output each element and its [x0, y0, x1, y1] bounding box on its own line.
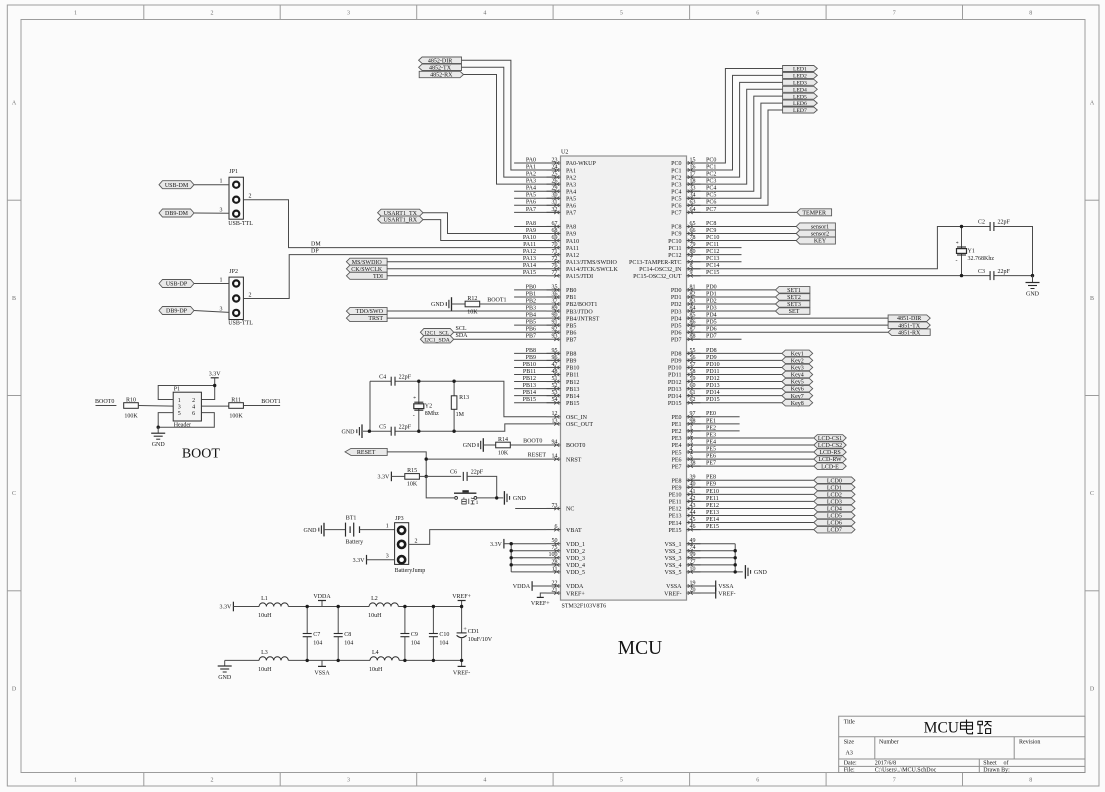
- wire BOOT0 to R10: [96, 405, 117, 407]
- wire C3 row: [962, 275, 991, 277]
- svg-text:KEY: KEY: [814, 239, 827, 245]
- wire PC8 to sensor1: [687, 225, 797, 227]
- sheet title MCU dianlu: [924, 720, 992, 737]
- svg-text:PB7: PB7: [566, 337, 576, 343]
- svg-text:PE1: PE1: [671, 422, 681, 428]
- svg-text:LCD4: LCD4: [827, 507, 842, 513]
- ground R12 GND: [431, 297, 452, 311]
- wire NC stub: [515, 507, 560, 509]
- svg-text:Key8: Key8: [791, 401, 804, 407]
- wire L4 to VREF-: [399, 659, 461, 661]
- svg-text:PD13: PD13: [668, 387, 682, 393]
- port LCD-CS2: [814, 442, 846, 449]
- wire USB-DP to JP2.1: [194, 283, 229, 285]
- svg-text:C4: C4: [379, 374, 386, 380]
- wire left stub row 0: [514, 162, 560, 164]
- capacitor C5 22pF: [379, 424, 412, 435]
- junction C7 bot: [306, 659, 309, 662]
- wire PC113 stub: [687, 261, 742, 263]
- pin PB14 (53) of U2: [547, 390, 580, 400]
- pin VDD_5 (11) of U2: [547, 566, 586, 576]
- wire PC0 to LED1: [687, 69, 783, 164]
- svg-text:DM: DM: [311, 241, 321, 247]
- svg-text:3: 3: [386, 554, 389, 560]
- pin PD3 (84) of U2: [671, 305, 701, 315]
- svg-text:VBAT: VBAT: [566, 528, 582, 534]
- svg-text:File:: File:: [844, 767, 855, 773]
- pin PA5 (30) of U2: [547, 193, 577, 203]
- wire reset drop: [425, 459, 427, 476]
- crystal Y1 32.768Khz: [956, 241, 995, 264]
- svg-text:VSS_2: VSS_2: [664, 549, 681, 555]
- svg-text:PB3/JTDO: PB3/JTDO: [566, 309, 593, 315]
- port LED4: [783, 86, 818, 93]
- svg-text:*: *: [956, 241, 959, 247]
- wire PC10 to KEY: [687, 240, 797, 242]
- svg-text:32.768Khz: 32.768Khz: [968, 256, 995, 262]
- svg-text:PD8: PD8: [671, 352, 682, 358]
- svg-text:PC6: PC6: [671, 204, 681, 210]
- wire PE12 to LCD4: [687, 507, 814, 509]
- svg-text:10uF/10V: 10uF/10V: [468, 637, 493, 643]
- pin PD10 (57) of U2: [668, 362, 701, 372]
- svg-text:PB13: PB13: [566, 387, 579, 393]
- wire TDO/SWO to PB3: [387, 310, 546, 312]
- wire PC1 to LED2: [687, 75, 783, 170]
- wire TRST to PB4: [387, 317, 546, 319]
- wire left stub row 5: [514, 197, 560, 199]
- pin PC2 (17) of U2: [671, 172, 700, 182]
- svg-text:2017/6/8: 2017/6/8: [875, 761, 896, 767]
- svg-text:8: 8: [1029, 778, 1032, 784]
- capacitor C4 22pF: [379, 374, 412, 385]
- pin VSS_3 (99) of U2: [664, 552, 700, 562]
- svg-text:PC15-OSC32_OUT: PC15-OSC32_OUT: [633, 274, 682, 280]
- wire 3.3V to JP3.3: [367, 559, 395, 561]
- wire PE1 stub: [687, 423, 740, 425]
- svg-text:L4: L4: [372, 650, 379, 656]
- wire PE5 to LCD-RS: [687, 451, 814, 453]
- svg-text:SCL: SCL: [456, 326, 467, 332]
- svg-text:100K: 100K: [124, 414, 138, 420]
- svg-text:OSC_IN: OSC_IN: [566, 415, 588, 421]
- svg-text:22pF: 22pF: [471, 470, 484, 476]
- svg-text:PA11: PA11: [566, 246, 579, 252]
- ground osc2 GND: [342, 424, 363, 438]
- svg-text:77: 77: [552, 270, 558, 276]
- svg-text:Battery: Battery: [346, 540, 364, 546]
- svg-text:PB4/JNTRST: PB4/JNTRST: [566, 316, 600, 322]
- junction osc node bottom: [960, 274, 963, 277]
- junction C8 bot: [337, 659, 340, 662]
- junction VDD junction 3: [510, 556, 513, 559]
- svg-text:R11: R11: [231, 397, 241, 403]
- svg-text:VSS_3: VSS_3: [664, 556, 681, 562]
- ground reset GND: [504, 491, 526, 505]
- svg-text:8: 8: [1029, 11, 1032, 17]
- svg-text:2: 2: [192, 398, 195, 404]
- pin NC (73) of U2: [547, 503, 575, 513]
- svg-text:LCD-RS: LCD-RS: [819, 450, 840, 456]
- svg-text:4851-RX: 4851-RX: [898, 330, 921, 336]
- pin PC9 (66) of U2: [671, 228, 700, 238]
- svg-text:VSS_1: VSS_1: [664, 542, 681, 548]
- pin PE0 (97) of U2: [671, 411, 700, 421]
- pin PA4 (29) of U2: [547, 186, 577, 196]
- svg-text:75: 75: [552, 545, 558, 551]
- wire 3.3V drop to P1.2: [201, 378, 214, 400]
- inductor L4 10uH: [369, 650, 399, 673]
- svg-text:69: 69: [552, 235, 558, 241]
- wire 4852-TX to PA2: [462, 67, 561, 177]
- svg-text:3: 3: [347, 11, 350, 17]
- power VREF+ at pin: [531, 597, 550, 606]
- junction P1 3.3V node: [213, 384, 216, 387]
- pin PD4 (85) of U2: [671, 313, 701, 323]
- svg-text:STM32F103V8T6: STM32F103V8T6: [562, 604, 607, 610]
- svg-text:BOOT: BOOT: [182, 447, 221, 462]
- pin VSS_1 (49) of U2: [664, 538, 700, 548]
- wire RESET to NRST: [387, 452, 546, 459]
- wire gnd drop L3: [224, 660, 226, 666]
- wire left stub row 23: [514, 324, 560, 326]
- svg-text:PE11: PE11: [669, 500, 682, 506]
- pin PB11 (48) of U2: [547, 369, 580, 379]
- pin NRST (14) of U2: [547, 454, 582, 464]
- svg-text:94: 94: [552, 439, 558, 445]
- svg-text:LCD-CS2: LCD-CS2: [818, 443, 842, 449]
- port CK/SWCLK: [346, 265, 387, 273]
- svg-text:PE10: PE10: [668, 493, 681, 499]
- svg-text:PA2: PA2: [566, 175, 576, 181]
- capacitor C9 104: [400, 632, 420, 647]
- svg-text:6: 6: [756, 11, 759, 17]
- svg-text:PA12: PA12: [566, 253, 579, 259]
- svg-text:PE2: PE2: [671, 429, 681, 435]
- svg-text:TDI: TDI: [373, 274, 383, 280]
- svg-text:PD7: PD7: [671, 337, 682, 343]
- wire node down to button: [426, 476, 454, 498]
- port TDI: [346, 272, 387, 280]
- wire L2 to VREF+: [398, 606, 461, 608]
- port 4851-TX: [888, 322, 930, 329]
- wire VSS row 1: [687, 543, 736, 545]
- svg-text:PD12: PD12: [668, 380, 682, 386]
- pin OSC_OUT (13) of U2: [547, 418, 594, 428]
- svg-text:72: 72: [552, 256, 558, 262]
- wire PD8 to Key1: [687, 352, 782, 354]
- svg-text:3.3V: 3.3V: [378, 475, 391, 481]
- svg-text:3.3V: 3.3V: [490, 542, 503, 548]
- wire SDA wire: [454, 338, 547, 340]
- svg-text:4: 4: [483, 11, 486, 17]
- port 4851-DIR: [888, 315, 930, 322]
- wire 3.3V to R15: [391, 475, 404, 477]
- port 4852-TX: [419, 64, 462, 71]
- svg-text:A: A: [12, 101, 17, 107]
- pin PB2/BOOT1 (37) of U2: [547, 298, 598, 308]
- svg-text:DB9-DP: DB9-DP: [166, 309, 188, 315]
- svg-text:3: 3: [178, 405, 181, 411]
- port MS/SWDIO: [346, 258, 387, 266]
- port LED1: [783, 66, 818, 73]
- svg-text:13: 13: [552, 418, 558, 424]
- pin PA6 (31) of U2: [547, 200, 577, 210]
- pin PE9 (40) of U2: [671, 482, 700, 492]
- svg-text:4852-RX: 4852-RX: [430, 73, 453, 79]
- label fuwei (reset) CJK: [462, 497, 475, 504]
- svg-text:LCD5: LCD5: [827, 514, 842, 520]
- svg-text:GND: GND: [1026, 292, 1040, 298]
- svg-text:100K: 100K: [229, 414, 243, 420]
- svg-text:2: 2: [211, 778, 214, 784]
- port LED5: [783, 93, 818, 100]
- wire PD4 to 4851-DIR: [687, 317, 889, 319]
- pin PE8 (39) of U2: [671, 475, 700, 485]
- port LCD-CS1: [814, 435, 846, 442]
- svg-text:1M: 1M: [456, 412, 465, 418]
- wire osc2 bottom rail: [369, 430, 391, 432]
- wire CD1 branch top: [461, 607, 463, 633]
- wire PD5 to 4851-TX: [687, 324, 889, 326]
- svg-text:A3: A3: [846, 751, 853, 757]
- svg-text:PD2: PD2: [671, 302, 682, 308]
- junction C9 top: [403, 605, 406, 608]
- wire C2 to right rail: [994, 227, 1033, 276]
- svg-text:Key1: Key1: [791, 351, 804, 357]
- svg-text:B: B: [1090, 296, 1094, 302]
- svg-text:10: 10: [690, 566, 696, 572]
- wire PE0 stub: [687, 416, 740, 418]
- wire rail 3.3V to L1: [233, 606, 259, 608]
- inductor L1 10uH: [258, 596, 288, 619]
- wire PD12 to Key5: [687, 381, 782, 383]
- wire osc2 top rail: [370, 380, 391, 382]
- wire VSS row 3: [687, 557, 736, 559]
- pin PA7 (32) of U2: [547, 207, 577, 217]
- svg-text:PC13-TAMPER-RTC: PC13-TAMPER-RTC: [629, 260, 682, 266]
- pin PA0-WKUP (23) of U2: [547, 157, 597, 167]
- resistor R12 10K: [465, 296, 480, 316]
- svg-text:Y2: Y2: [425, 404, 432, 410]
- capacitor C10 104: [429, 632, 450, 647]
- port USB-DP: [159, 280, 194, 288]
- svg-text:104: 104: [439, 641, 448, 647]
- svg-text:11: 11: [552, 566, 558, 572]
- pin PE3 (2) of U2: [671, 432, 700, 442]
- svg-text:6: 6: [192, 411, 195, 417]
- svg-text:PA3: PA3: [566, 182, 576, 188]
- svg-text:L2: L2: [371, 596, 378, 602]
- wire PC6 to LED7: [687, 110, 783, 205]
- port Key5: [782, 378, 813, 385]
- junction gnd rail: [1031, 274, 1034, 277]
- svg-text:C7: C7: [313, 632, 320, 638]
- svg-text:LCD3: LCD3: [827, 500, 842, 506]
- port LED7: [783, 107, 818, 114]
- pin PD5 (86) of U2: [671, 320, 701, 330]
- pin PE4 (3) of U2: [671, 439, 700, 449]
- wire PE3 to LCD-CS1: [687, 437, 814, 439]
- svg-text:D: D: [12, 686, 17, 692]
- port USART1_RX: [378, 216, 423, 224]
- pin PE11 (42) of U2: [669, 496, 701, 506]
- capacitor C2 22pF: [978, 220, 1011, 231]
- pin PA2 (25) of U2: [547, 172, 577, 182]
- power VSSA tap: [314, 660, 330, 676]
- wire USART1_RX to PA10: [423, 220, 547, 241]
- pin VDD_4 (28) of U2: [547, 559, 586, 569]
- svg-text:49: 49: [690, 538, 696, 544]
- pin PB0 (35) of U2: [547, 284, 577, 294]
- wire C7 branch bot: [306, 637, 308, 661]
- junction VSS junction 4: [734, 563, 737, 566]
- ground crystal GND: [1026, 283, 1040, 298]
- port Key3: [782, 364, 813, 371]
- pin VBAT (6) of U2: [547, 524, 583, 534]
- svg-text:BOOT0: BOOT0: [523, 439, 542, 445]
- port DB9-DP: [159, 307, 194, 315]
- svg-text:LCD0: LCD0: [827, 478, 842, 484]
- pin PD1 (82) of U2: [671, 291, 701, 301]
- wire PC111 stub: [687, 247, 742, 249]
- svg-text:10uH: 10uH: [258, 667, 272, 673]
- wire VDD row 4: [511, 564, 546, 566]
- svg-text:PA15/JTDI: PA15/JTDI: [566, 274, 593, 280]
- svg-text:USB-TTL: USB-TTL: [228, 320, 253, 326]
- battery BT1: [346, 516, 364, 546]
- svg-text:PD10: PD10: [668, 366, 682, 372]
- svg-text:PE4: PE4: [671, 443, 681, 449]
- svg-text:CD1: CD1: [468, 629, 479, 635]
- svg-text:PE9: PE9: [671, 486, 681, 492]
- pin PA9 (68) of U2: [547, 228, 577, 238]
- svg-text:BOOT1: BOOT1: [487, 298, 506, 304]
- port USB-DM: [159, 181, 194, 189]
- capacitor C3 22pF: [978, 269, 1011, 280]
- junction P1 gnd node: [157, 426, 160, 429]
- svg-text:USART1_RX: USART1_RX: [383, 218, 417, 224]
- svg-text:3.3V: 3.3V: [220, 605, 233, 611]
- wire PE8 to LCD0: [687, 479, 814, 481]
- junction VSS junction 5: [734, 570, 737, 573]
- wire PC112 stub: [687, 254, 742, 256]
- pin PB12 (51) of U2: [547, 376, 580, 386]
- port LCD0: [814, 477, 855, 484]
- svg-text:PA6: PA6: [566, 204, 576, 210]
- power VREF- bar: [716, 588, 736, 599]
- wire C9 branch bot: [404, 637, 406, 661]
- wire C8 branch bot: [337, 637, 339, 661]
- wire USB-DM to JP1.1: [194, 184, 229, 186]
- wire P1.1 loop: [158, 386, 215, 400]
- svg-text:PB14: PB14: [566, 394, 579, 400]
- svg-text:-: -: [413, 413, 415, 419]
- svg-text:PC9: PC9: [671, 232, 681, 238]
- wire MS/SWDIO to PA13: [387, 261, 546, 263]
- svg-text:4: 4: [483, 778, 486, 784]
- svg-text:Drawn By:: Drawn By:: [983, 767, 1010, 773]
- svg-text:C3: C3: [978, 269, 985, 275]
- svg-text:12: 12: [552, 411, 558, 417]
- power VREF+ tap: [452, 594, 471, 606]
- svg-text:SDA: SDA: [456, 333, 469, 339]
- svg-text:LED5: LED5: [793, 94, 807, 100]
- svg-text:104: 104: [313, 641, 322, 647]
- svg-text:VREF-: VREF-: [453, 670, 470, 676]
- svg-text:Size: Size: [844, 739, 855, 745]
- wire PD3 to SET: [687, 310, 776, 312]
- junction CD1 top: [460, 605, 463, 608]
- wire JP3.2 to VBAT: [409, 530, 547, 545]
- svg-text:BOOT0: BOOT0: [566, 443, 585, 449]
- junction rc node: [425, 475, 428, 478]
- port I2C1_SDA: [420, 336, 453, 344]
- port LCD-RS: [814, 449, 846, 456]
- wire VDD vertical: [510, 544, 512, 572]
- resistor R13 1M: [451, 395, 469, 418]
- svg-text:LED2: LED2: [793, 74, 807, 80]
- port Key2: [782, 357, 813, 364]
- svg-text:Key4: Key4: [791, 373, 804, 379]
- port LCD1: [814, 484, 855, 491]
- junction VDD junction 4: [510, 563, 513, 566]
- wire 3.3V to VDD rail: [504, 543, 511, 545]
- wire PD11 to Key4: [687, 374, 782, 376]
- junction c5 gnd: [368, 430, 371, 433]
- wire PE14 to LCD6: [687, 522, 814, 524]
- svg-text:VDD_5: VDD_5: [566, 570, 585, 576]
- svg-text:BOOT0: BOOT0: [95, 399, 114, 405]
- wire Y2 branch: [418, 381, 420, 431]
- port LED6: [783, 100, 818, 107]
- svg-text:LCD-RW: LCD-RW: [818, 457, 842, 463]
- power VDDA tap: [313, 594, 331, 606]
- svg-text:VDDA: VDDA: [513, 584, 531, 590]
- wire DB9-DM to JP1.3: [194, 212, 229, 214]
- svg-text:PB5: PB5: [566, 323, 576, 329]
- pin PB1 (36) of U2: [547, 291, 577, 301]
- resistor R11 100K: [229, 397, 244, 419]
- port LCD2: [814, 491, 855, 498]
- wire left stub row 4: [514, 190, 560, 192]
- svg-text:C:\Users\..\MCU.SchDoc: C:\Users\..\MCU.SchDoc: [875, 767, 937, 773]
- svg-text:100: 100: [549, 552, 558, 558]
- svg-text:10uH: 10uH: [368, 613, 382, 619]
- svg-text:LED1: LED1: [793, 67, 807, 73]
- wire L1 to L2: [288, 606, 369, 608]
- svg-text:10uH: 10uH: [369, 667, 383, 673]
- pin VDD_3 (100) of U2: [547, 552, 586, 562]
- svg-text:5: 5: [620, 11, 623, 17]
- wire osc2 gnd stub: [363, 430, 369, 432]
- wire PC14 to osc node: [687, 227, 962, 269]
- wire Y1 branch: [961, 227, 963, 276]
- svg-text:Key5: Key5: [791, 380, 804, 386]
- svg-text:68: 68: [552, 228, 558, 234]
- wire CK/SWCLK to PA14: [387, 268, 546, 270]
- pin PD15 (62) of U2: [668, 397, 701, 407]
- svg-text:GND: GND: [218, 675, 232, 681]
- wire VDD row 2: [511, 550, 546, 552]
- pin PA14/JTCK/SWCLK (76) of U2: [547, 263, 619, 273]
- svg-text:PE5: PE5: [671, 450, 681, 456]
- svg-text:*: *: [413, 396, 416, 402]
- wire R14 to BOOT0 pin: [510, 444, 546, 446]
- svg-text:PA14/JTCK/SWCLK: PA14/JTCK/SWCLK: [566, 267, 618, 273]
- svg-text:-: -: [956, 258, 958, 264]
- pin PC5 (34) of U2: [671, 193, 700, 203]
